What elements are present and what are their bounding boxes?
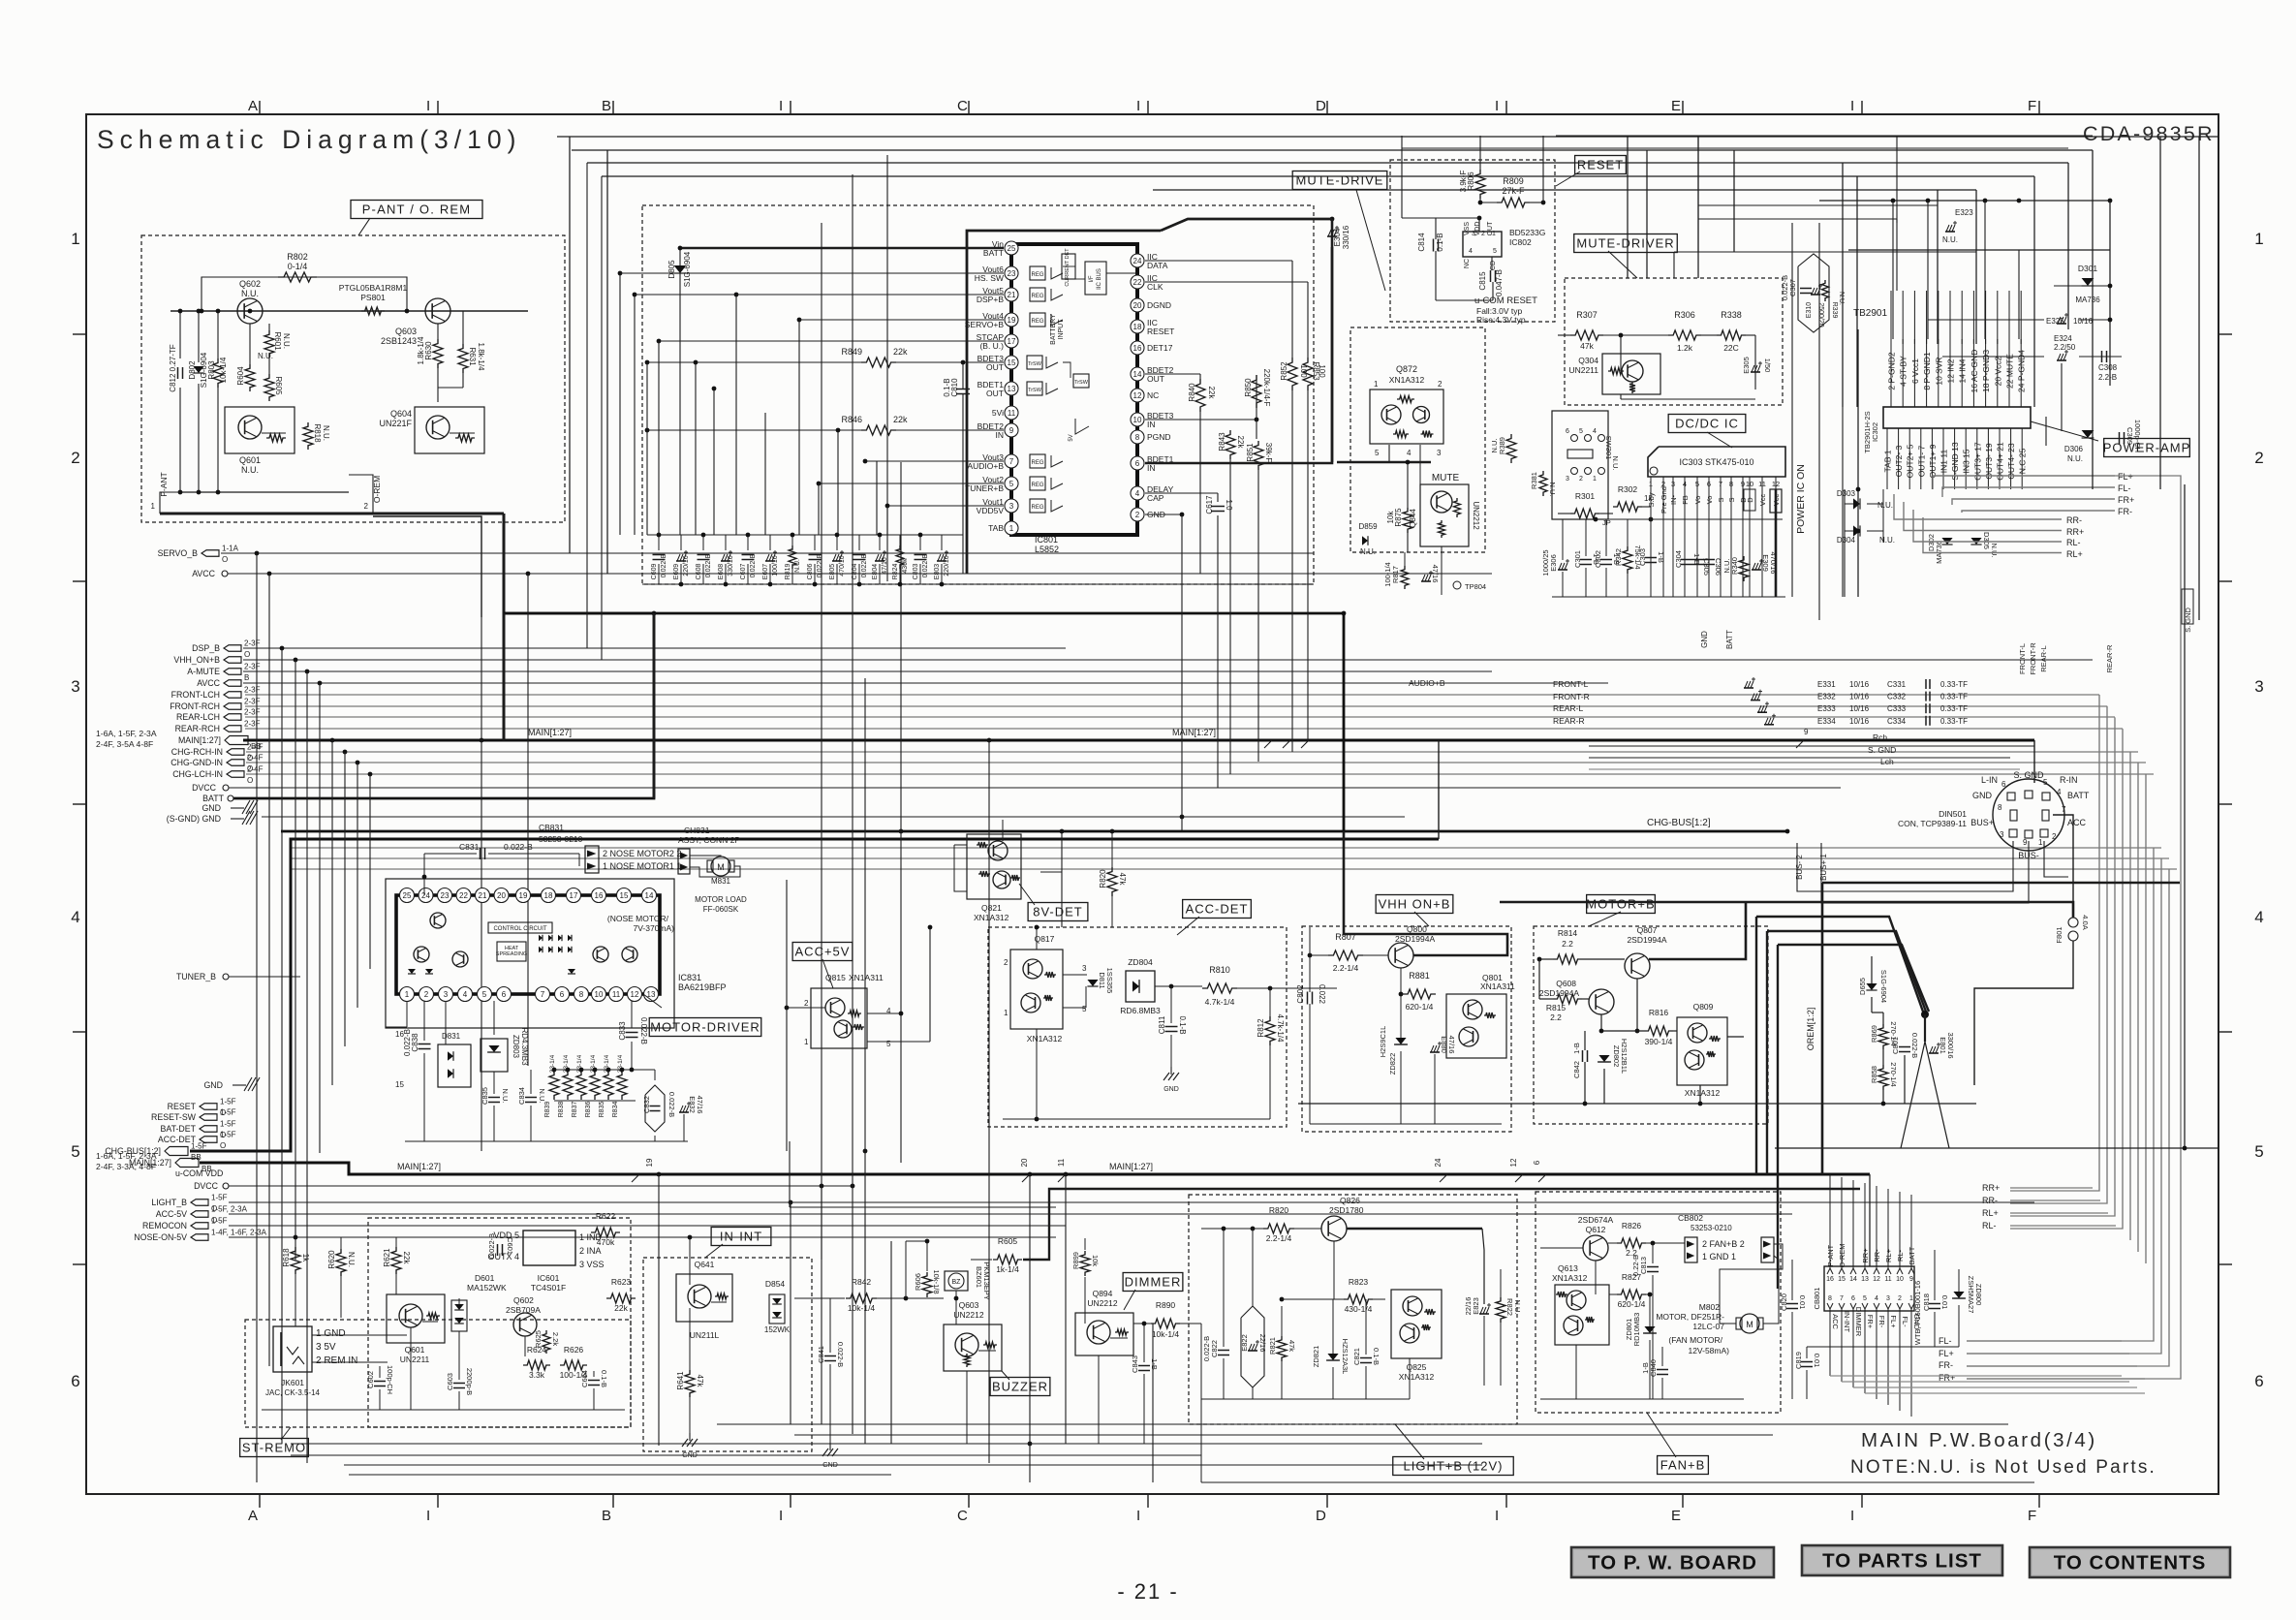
resistor R858 (1878, 1065, 1888, 1090)
svg-text:N.U.: N.U. (258, 352, 273, 360)
svg-text:D301: D301 (2078, 264, 2098, 273)
svg-text:0.1-B: 0.1-B (600, 1370, 608, 1387)
svg-text:Q613: Q613 (1558, 1263, 1578, 1273)
leader ACC-DET (1177, 917, 1199, 935)
LIGHT+B dashed enclosure (1189, 1195, 1517, 1424)
svg-text:2200p-B: 2200p-B (465, 1368, 474, 1395)
svg-text:R816: R816 (1649, 1008, 1669, 1017)
IC801 internal REG 3 (1030, 313, 1045, 327)
P-ANT/O.REM dashed enclosure (141, 235, 565, 522)
IC801 pin 19 Vout4 (1005, 313, 1018, 327)
wire vertical x=848 (821, 223, 822, 1186)
svg-text:MA152WK: MA152WK (467, 1283, 507, 1293)
zener box ZD803 (481, 1039, 508, 1072)
svg-text:SERVO+B: SERVO+B (965, 320, 1005, 329)
svg-text:0.33-TF: 0.33-TF (1940, 693, 1968, 701)
svg-text:4 ST-BY: 4 ST-BY (1899, 356, 1908, 387)
svg-text:R302: R302 (1618, 484, 1638, 494)
IC302 pin 24 P-GND4 (2020, 339, 2022, 407)
svg-text:BATT: BATT (1725, 630, 1734, 649)
svg-text:R803: R803 (207, 360, 216, 380)
capacitor E805 (836, 535, 838, 550)
resistor R302 (1k) (1613, 502, 1642, 512)
Q304 transistor (1622, 360, 1643, 382)
svg-text:RR-: RR- (1982, 1196, 1998, 1205)
svg-text:FL-: FL- (2118, 483, 2131, 493)
svg-text:R301: R301 (1575, 491, 1596, 501)
IC801 pin 24 IIC (1131, 254, 1144, 267)
svg-text:1k: 1k (301, 1254, 310, 1262)
svg-text:E832: E832 (688, 1096, 697, 1113)
hex capacitor C832 (645, 1085, 665, 1132)
svg-text:Q817: Q817 (1035, 934, 1055, 944)
IC302 pin 8 P-GND1 (1926, 339, 1928, 407)
wire bus y=752 (245, 728, 2123, 730)
riser x=621b (601, 176, 603, 660)
Q603 transistor (955, 1333, 978, 1356)
svg-text:R818: R818 (313, 423, 322, 443)
svg-text:8: 8 (579, 990, 584, 999)
svg-text:IC303 STK475-010: IC303 STK475-010 (1679, 457, 1753, 467)
leader POWER-AMP (2031, 421, 2098, 441)
IC801 pin 1 TAB (1005, 521, 1018, 535)
svg-text:E804: E804 (872, 564, 879, 579)
MUTE-DRIVER label box (1574, 234, 1678, 253)
Q872 transistor A (1381, 405, 1401, 424)
IC303 pin 6 Vo (1708, 477, 1710, 597)
svg-text:22C: 22C (1723, 343, 1739, 353)
top bus y=182 (602, 175, 2034, 177)
Q817 component box (1010, 950, 1063, 1029)
resistor R815 (1553, 994, 1582, 1004)
svg-text:IN-: IN- (1669, 495, 1678, 506)
Q815 wires (787, 1007, 825, 1009)
svg-text:OREM[1:2]: OREM[1:2] (1806, 1008, 1815, 1051)
svg-text:OUT: OUT (986, 362, 1004, 372)
svg-text:6: 6 (1707, 480, 1711, 488)
thick BATT bus (233, 613, 654, 798)
Q821 component box (967, 834, 1021, 899)
svg-text:9: 9 (2023, 838, 2028, 847)
wire vertical x=305 (295, 660, 296, 1260)
wire bus y=669 (243, 647, 1066, 649)
svg-text:10/16: 10/16 (1849, 717, 1870, 726)
thick P-ANT output (160, 513, 504, 515)
svg-text:D303: D303 (1837, 489, 1856, 498)
svg-text:C811: C811 (1158, 1015, 1166, 1034)
IC302 pin 2 P-GND2 (1890, 339, 1892, 407)
svg-text:F: F (2028, 1508, 2036, 1524)
IC831 pin 23 (438, 888, 452, 903)
svg-text:AVCC: AVCC (192, 569, 215, 578)
port FRONT-LCH (224, 692, 241, 699)
svg-text:220/16: 220/16 (944, 555, 950, 576)
svg-text:15: 15 (620, 891, 629, 900)
CB801 pin 13 RR+ (1862, 1268, 1868, 1274)
svg-text:C: C (957, 1508, 968, 1524)
svg-text:Vo: Vo (1705, 496, 1714, 505)
ST-REMO label box (240, 1439, 309, 1457)
wire vertical x=1100 (1065, 1174, 1067, 1444)
svg-text:Schematic Diagram(3/10): Schematic Diagram(3/10) (97, 125, 521, 154)
wire bus y=799 (246, 773, 2154, 775)
svg-text:21: 21 (1008, 291, 1016, 299)
svg-text:OUT1+ 9: OUT1+ 9 (1928, 444, 1938, 478)
wire R802 row (344, 277, 407, 311)
resistor R301 (1570, 509, 1599, 518)
svg-text:E801: E801 (1939, 1037, 1947, 1054)
svg-text:R834: R834 (612, 1102, 619, 1118)
svg-text:3300/16: 3300/16 (1946, 1032, 1955, 1058)
IC801 pin 15 BDET3 (1005, 356, 1018, 369)
resistor R340 (1739, 556, 1749, 581)
resistor R842 (10k-1/4) (846, 1293, 877, 1303)
svg-text:3: 3 (71, 677, 79, 696)
svg-text:2: 2 (1898, 1295, 1902, 1302)
Q894 component box (1075, 1313, 1133, 1355)
capacitor C302 (1600, 559, 1612, 561)
svg-text:47k: 47k (1580, 341, 1594, 351)
svg-text:L5852: L5852 (1035, 545, 1059, 554)
svg-text:FR+: FR+ (2118, 495, 2134, 505)
svg-text:2 INA: 2 INA (579, 1246, 602, 1256)
svg-text:C821: C821 (1352, 1348, 1361, 1365)
resistor R824 (899, 535, 901, 550)
svg-text:2 FAN+B 2: 2 FAN+B 2 (1702, 1239, 1745, 1249)
svg-text:R815: R815 (1546, 1003, 1567, 1012)
port REAR-RCH (224, 726, 241, 732)
svg-text:R820: R820 (1269, 1205, 1289, 1215)
switch SW301 (1571, 435, 1578, 442)
resistor R869 (1878, 1024, 1888, 1049)
svg-text:N.U.: N.U. (1879, 536, 1895, 545)
wire vertical x=930 (900, 462, 902, 1163)
svg-text:0.022-B: 0.022-B (750, 553, 757, 577)
svg-text:D811: D811 (1098, 972, 1106, 988)
svg-text:TO CONTENTS: TO CONTENTS (2054, 1552, 2207, 1574)
IC801 pin 22 IIC (1131, 275, 1144, 289)
svg-text:220k-1/4-F: 220k-1/4-F (1262, 369, 1271, 407)
svg-text:R820: R820 (1099, 869, 1107, 888)
power verticals mid (1697, 137, 1699, 278)
svg-text:ST-REMO: ST-REMO (242, 1441, 306, 1455)
svg-text:Vcc: Vcc (1758, 494, 1767, 507)
svg-text:BUZZER: BUZZER (992, 1380, 1048, 1394)
fuse F801 (2068, 918, 2078, 927)
svg-text:N.U.: N.U. (241, 289, 259, 298)
resistor R620 (N.U.) (336, 1249, 346, 1276)
IC801 CURRENT DET box (1062, 254, 1075, 279)
resistor R306 (1.2k) (1668, 330, 1701, 340)
svg-text:FR-: FR- (1939, 1360, 1953, 1370)
svg-text:REG: REG (1031, 505, 1043, 511)
vertical feeds to cap bank (646, 362, 648, 535)
diode D302 (1941, 538, 1952, 545)
Q801 transistor A (1463, 1000, 1482, 1019)
capacitor E305 (1751, 371, 1760, 373)
svg-text:ACC-DET: ACC-DET (1186, 902, 1249, 917)
resistor bank R839-R834 (549, 1071, 559, 1100)
capacitor C831 (480, 848, 481, 859)
svg-text:I/F: I/F (1089, 275, 1095, 282)
port BAT-DET (200, 1126, 217, 1133)
svg-text:4: 4 (1407, 449, 1412, 457)
leader MOTOR+B (1589, 912, 1621, 926)
svg-text:4: 4 (1875, 1295, 1878, 1302)
svg-text:17: 17 (570, 891, 578, 900)
svg-text:S.by: S.by (1647, 492, 1656, 507)
svg-text:REG: REG (1031, 319, 1043, 325)
svg-text:1-1A: 1-1A (222, 545, 239, 553)
svg-text:2.2/50: 2.2/50 (2054, 343, 2076, 352)
svg-text:OUT: OUT (986, 389, 1004, 398)
svg-text:6 Vcc1: 6 Vcc1 (1910, 358, 1920, 384)
svg-text:4: 4 (1683, 480, 1687, 488)
Q641 transistor (688, 1285, 711, 1308)
svg-text:11: 11 (1758, 480, 1766, 488)
capacitor C309 (2119, 432, 2121, 444)
svg-text:0.022-B: 0.022-B (836, 1342, 845, 1367)
zener ZD822 (1395, 1038, 1406, 1044)
svg-text:BUS+ 1: BUS+ 1 (1819, 854, 1828, 881)
svg-text:IN: IN (996, 430, 1005, 440)
svg-text:S1G-6904: S1G-6904 (1879, 970, 1888, 1003)
IC802 BD5233G package (1463, 232, 1502, 257)
svg-text:100-1/4: 100-1/4 (1383, 562, 1392, 586)
thick VHH feed (1344, 831, 1507, 955)
svg-text:S: S (1717, 497, 1725, 502)
svg-text:R810: R810 (1209, 965, 1230, 975)
port RESET-SW (200, 1114, 217, 1121)
wire vertical x=1375 (1331, 219, 1334, 462)
svg-text:RL-: RL- (1982, 1221, 1997, 1231)
Q894 transistor (1087, 1321, 1110, 1344)
svg-text:C806: C806 (807, 564, 814, 580)
svg-text:REAR-LCH: REAR-LCH (176, 712, 220, 722)
svg-text:0.01: 0.01 (1798, 1295, 1807, 1310)
IC302 pin TAB 1 (1886, 428, 1888, 489)
svg-text:Q612: Q612 (1586, 1225, 1606, 1234)
svg-text:R858: R858 (1870, 1066, 1878, 1083)
svg-text:1: 1 (1649, 480, 1653, 488)
capacitor C833 (626, 1032, 638, 1034)
svg-text:(B. U.): (B. U.) (979, 341, 1004, 351)
svg-text:1.8k-1/4: 1.8k-1/4 (417, 336, 425, 364)
IC303 pin12 Vcc thick (1775, 489, 1778, 519)
svg-text:22/16: 22/16 (1258, 1334, 1267, 1353)
svg-text:REAR-RCH: REAR-RCH (175, 724, 220, 733)
gray speaker drop x=2252 (2062, 518, 2182, 520)
svg-text:REMOCON: REMOCON (142, 1221, 187, 1231)
svg-text:VHH_ON+B: VHH_ON+B (173, 655, 220, 665)
svg-text:R852: R852 (1280, 361, 1288, 381)
resistor R623 (22k) (606, 1293, 636, 1303)
svg-text:15: 15 (395, 1080, 404, 1089)
svg-text:D: D (1316, 98, 1326, 114)
wires power area (1845, 503, 1853, 505)
svg-text:R306: R306 (1674, 310, 1695, 320)
svg-text:20: 20 (497, 891, 506, 900)
capacitor E880 (1430, 1051, 1440, 1053)
svg-text:E334: E334 (1817, 717, 1836, 726)
IC303 pin 2 Pre Gnd (1662, 477, 1664, 597)
svg-text:1: 1 (1009, 524, 1014, 533)
IC831 pin 22 (456, 888, 471, 903)
transistor box Q604 (415, 407, 484, 453)
svg-text:R806: R806 (1467, 171, 1475, 191)
capacitor C818 (1929, 1303, 1940, 1305)
gray bus vertical x=2199 (2129, 752, 2131, 1240)
resistor R605 (1k-1/4) (993, 1255, 1022, 1264)
wire Vout3 AUDIO (865, 460, 1004, 462)
resistor R846 (861, 425, 896, 435)
svg-text:C608: C608 (696, 564, 702, 580)
IC302 pin OUT4- 23 (2010, 428, 2012, 489)
svg-text:6: 6 (71, 1372, 79, 1390)
svg-text:ZD821: ZD821 (1312, 1346, 1320, 1368)
border frame (86, 114, 2218, 1494)
svg-text:0.33-TF: 0.33-TF (1940, 704, 1968, 713)
resistor R389 (1506, 434, 1516, 463)
thick feed line 4 (1778, 945, 1929, 1012)
resistor R819 (791, 535, 793, 550)
IC302 pin 12 IN2 (1949, 339, 1951, 407)
svg-text:DET17: DET17 (1147, 343, 1173, 353)
DIN501 connector circle (1993, 779, 2064, 851)
svg-text:13: 13 (1861, 1276, 1869, 1283)
resistor R822 (N.U.) (1496, 1297, 1505, 1323)
svg-text:CLK: CLK (1147, 282, 1164, 292)
capacitor C607 (747, 535, 749, 550)
svg-text:0.047-B: 0.047-B (1495, 269, 1504, 296)
svg-text:13: 13 (1008, 385, 1016, 393)
IN-INT wires (689, 1237, 691, 1285)
svg-text:8 P-GND1: 8 P-GND1 (1922, 352, 1932, 389)
IC302 pin OUT3- 19 (1987, 428, 1989, 489)
riser AVCC to top (606, 150, 608, 574)
svg-text:1: 1 (71, 230, 79, 248)
motor M802 (1740, 1314, 1759, 1333)
svg-text:FRONT-LCH: FRONT-LCH (171, 690, 220, 700)
svg-text:- 21 -: - 21 - (1117, 1579, 1178, 1604)
svg-text:N.U.: N.U. (322, 425, 330, 441)
svg-text:C814: C814 (1417, 233, 1426, 252)
svg-text:FB: FB (1681, 495, 1690, 505)
bottom rail 2 (794, 1434, 1773, 1436)
svg-text:R899: R899 (1071, 1252, 1080, 1269)
svg-text:MA736: MA736 (2075, 296, 2100, 304)
wires right of IC801 (1145, 260, 1292, 262)
CB801 pin 4 FR- (1874, 1303, 1879, 1309)
transistor Q807 (1625, 953, 1650, 979)
MUTE-DRIVE label box (1292, 171, 1387, 190)
resistor R618 (1k) (291, 1247, 300, 1274)
svg-text:C306: C306 (1714, 558, 1722, 576)
resistor R641 (47k) (685, 1370, 695, 1397)
svg-text:Q608: Q608 (1556, 979, 1576, 988)
svg-text:1.2k: 1.2k (1677, 343, 1693, 353)
svg-text:C803: C803 (913, 564, 919, 580)
wire top loop (202, 277, 344, 311)
leader IN-INT (705, 1244, 723, 1258)
IC801 pin 6 BDET1 (1131, 456, 1144, 470)
svg-text:LIGHT+B (12V): LIGHT+B (12V) (1404, 1459, 1504, 1474)
IC831 pin 25 (400, 888, 415, 903)
capacitor C820 (1786, 1303, 1798, 1305)
resistor R852 (1288, 358, 1297, 390)
svg-text:47/16: 47/16 (882, 557, 888, 575)
svg-text:0.022-B: 0.022-B (705, 553, 712, 577)
svg-text:12 IN2: 12 IN2 (1946, 358, 1956, 383)
svg-text:C617: C617 (1205, 495, 1214, 514)
svg-text:0.022-B: 0.022-B (1910, 1033, 1919, 1058)
wire vertical x=330 (319, 683, 321, 1153)
svg-text:6: 6 (1135, 459, 1140, 468)
thick MAIN bus (243, 739, 2034, 742)
svg-text:DSP+B: DSP+B (977, 295, 1004, 304)
svg-text:N.C 25: N.C 25 (2018, 449, 2028, 475)
svg-text:10 SVR: 10 SVR (1934, 357, 1943, 385)
Q825 transistor B (1400, 1324, 1419, 1343)
svg-text:CDA-9835R: CDA-9835R (2083, 122, 2215, 145)
leader DIMMER (1124, 1290, 1135, 1310)
svg-text:2-3F: 2-3F (244, 639, 261, 648)
gray loop bottom right (1830, 1375, 2122, 1377)
connector CB802 (1685, 1237, 1697, 1262)
ST-REMO dashed enclosure (245, 1320, 631, 1427)
wire bus y=843 (262, 816, 1405, 818)
svg-text:HZS12A3L: HZS12A3L (1341, 1339, 1350, 1375)
port BATT (228, 795, 233, 801)
svg-text:1: 1 (2254, 230, 2263, 248)
resistor R816 (1644, 1026, 1673, 1036)
svg-text:C810: C810 (950, 378, 959, 397)
port TUNER_B (223, 974, 229, 980)
svg-text:IN: IN (1147, 463, 1156, 473)
Q825 component box (1391, 1290, 1442, 1358)
svg-text:10k-1/4: 10k-1/4 (219, 357, 228, 383)
ACC-DET label box (1183, 900, 1252, 919)
resistor R820 (2.2-1/4) (1263, 1224, 1294, 1233)
svg-text:6: 6 (502, 990, 507, 999)
transistor Q800 (1388, 943, 1413, 968)
svg-text:3: 3 (2000, 830, 2004, 839)
bottom rail 1 (717, 1423, 2008, 1425)
svg-text:NOSE-ON-5V: NOSE-ON-5V (134, 1232, 187, 1242)
riser x=1190 (1152, 1324, 1154, 1482)
svg-text:E331: E331 (1817, 680, 1836, 689)
svg-text:XN1A312: XN1A312 (1399, 1372, 1435, 1382)
wire bus y=571 (267, 552, 1314, 554)
svg-text:Q603: Q603 (395, 327, 417, 336)
ACC+5V label box (792, 943, 853, 961)
IC801 internal REG 4 (1030, 454, 1045, 468)
svg-text:D805: D805 (667, 260, 676, 279)
capacitor C842 (1582, 1050, 1584, 1062)
svg-text:15: 15 (1838, 1276, 1846, 1283)
svg-text:R389: R389 (1498, 437, 1506, 454)
svg-text:PTGL05BA1R8M1: PTGL05BA1R8M1 (339, 283, 408, 293)
svg-text:4: 4 (2254, 908, 2263, 926)
port ACC-5V (191, 1211, 208, 1218)
riser x=1280 (1239, 1424, 1241, 1482)
IC303 pin 10 D (1749, 477, 1751, 597)
svg-text:R802: R802 (287, 252, 308, 262)
thick bus mid (281, 830, 1787, 833)
resistor R843 (1226, 430, 1235, 459)
IC801 internal REG 2 (1030, 288, 1045, 301)
svg-text:E306: E306 (1549, 554, 1558, 572)
